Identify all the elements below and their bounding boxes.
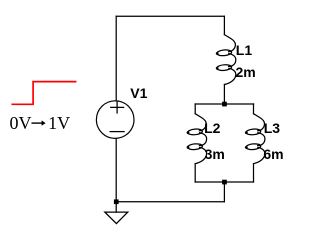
label L1 (236, 43, 252, 57)
value 3m (205, 147, 225, 161)
junction node ground (114, 199, 119, 204)
voltage source V1 (96, 101, 134, 139)
wire L1 branch top (223, 16, 225, 34)
wire L3 bottom (253, 164, 255, 182)
label V1 (130, 86, 147, 100)
inductor L3 coil (245, 114, 265, 164)
inductor L1 coil (216, 35, 236, 85)
wire L2 bottom (194, 164, 196, 182)
wire top from V1 to L1 (116, 15, 224, 17)
wire bottom rail of parallel branch (195, 181, 253, 183)
plus sign (111, 102, 124, 113)
wire L3 branch top (253, 104, 255, 114)
wire vertical from bottom rail down (223, 182, 225, 202)
wire top rail of parallel branch (195, 103, 253, 105)
junction node top rail (222, 102, 227, 107)
label L3 (264, 121, 280, 135)
value 2m (236, 65, 256, 79)
value 6m (263, 147, 283, 161)
svg-text:0V: 0V (10, 113, 32, 133)
step source waveform (red) (12, 82, 75, 105)
wire bottom horizontal to ground node (116, 201, 224, 203)
wire L1 bottom (223, 85, 225, 105)
junction node bottom rail (222, 180, 227, 185)
wire L2 branch top (194, 104, 196, 114)
arrow of step text (32, 122, 43, 124)
wire below V1 (115, 139, 117, 202)
minus sign (110, 131, 124, 133)
ground (105, 202, 128, 224)
label L2 (204, 121, 220, 135)
svg-text:1V: 1V (48, 113, 70, 133)
wire left vertical V1 top (115, 16, 117, 100)
inductor L2 coil (187, 114, 207, 164)
